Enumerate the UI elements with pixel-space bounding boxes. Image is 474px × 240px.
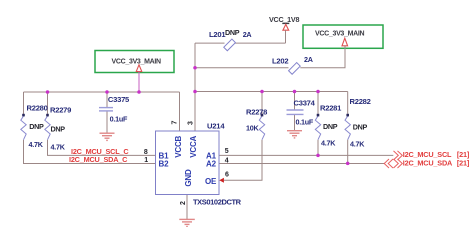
svg-text:DNP: DNP (353, 123, 368, 132)
svg-text:R2280: R2280 (27, 104, 48, 113)
svg-text:R2281: R2281 (320, 104, 342, 113)
svg-text:R2279: R2279 (50, 106, 71, 115)
node C3374/rail2 (293, 90, 297, 94)
svg-text:0.1uF: 0.1uF (110, 115, 128, 124)
svg-text:0.1uF: 0.1uF (296, 117, 314, 126)
wire L202 left (195, 67, 289, 69)
svg-text:B2: B2 (159, 160, 170, 169)
svg-text:6: 6 (225, 172, 229, 179)
svg-text:4: 4 (225, 158, 229, 165)
wire R2280 bottom to net I2C_MCU_SDA_C (24, 140, 156, 164)
off-page connector I2C_MCU_SDA (384, 158, 470, 168)
wire R2280 top (23, 92, 25, 116)
svg-text:TXS0102DCTR: TXS0102DCTR (193, 198, 242, 207)
wire A1 to off-page I2C_MCU_SCL (219, 154, 393, 156)
svg-text:A2: A2 (206, 160, 217, 169)
node L202/VCCA vertical (193, 66, 197, 70)
ground under C3374 (287, 131, 302, 138)
svg-text:U214: U214 (207, 121, 225, 130)
node R2278/rail2 (260, 90, 264, 94)
inductor L202 (272, 55, 313, 74)
wire R2281 bottom (317, 140, 319, 156)
svg-text:DNP: DNP (29, 122, 44, 131)
wire R2278 bottom to OE (224, 140, 262, 181)
node VCC stem/rail (137, 90, 141, 94)
resistor R2280 (21, 104, 48, 150)
svg-text:2: 2 (180, 201, 187, 205)
ground under U214 pin 2 (179, 219, 195, 226)
svg-text:2A: 2A (304, 55, 313, 64)
wire R2281 top (317, 92, 319, 117)
wire C3374 bottom (294, 114, 296, 130)
resistor R2281 (315, 104, 342, 148)
wire R2278 top (261, 92, 263, 117)
svg-text:OE: OE (205, 177, 217, 186)
wire L202 right to VCC_3V3_MAIN (300, 48, 345, 68)
svg-text:DNP: DNP (225, 28, 240, 37)
svg-text:7: 7 (171, 120, 178, 124)
resistor R2279 (45, 106, 71, 152)
node R2281/rail2 (316, 90, 320, 94)
svg-text:VCCA: VCCA (189, 135, 198, 157)
svg-text:GND: GND (184, 169, 193, 187)
svg-text:R2278: R2278 (246, 107, 267, 116)
node R2279/rail (46, 90, 50, 94)
wire GND pin 2 (186, 195, 188, 220)
svg-text:10K: 10K (246, 123, 259, 132)
wire C3374 top (294, 92, 296, 111)
svg-text:I2C_MCU_SDA: I2C_MCU_SDA (403, 158, 453, 167)
svg-text:L202: L202 (272, 57, 288, 66)
svg-text:1: 1 (144, 157, 148, 164)
resistor R2278 (246, 107, 267, 139)
node R2282/SDA (346, 162, 350, 166)
OE active-low arrow (219, 178, 224, 183)
svg-text:[21]: [21] (457, 158, 470, 167)
wire C3375 top (106, 92, 108, 108)
resistor R2282 (345, 97, 371, 148)
off-page connector I2C_MCU_SCL (394, 150, 470, 160)
svg-text:C3374: C3374 (294, 98, 316, 107)
svg-text:DNP: DNP (51, 125, 66, 134)
svg-text:4.7K: 4.7K (350, 139, 365, 148)
wire L201 right to VCC_1V8 (235, 42, 286, 44)
wire L201 left (195, 42, 225, 44)
power symbol VCC_3V3_MAIN (left box) (95, 51, 174, 93)
node rail2/VCCA vertical (193, 90, 197, 94)
svg-text:VCC_3V3_MAIN: VCC_3V3_MAIN (112, 58, 162, 65)
svg-text:VCCB: VCCB (174, 135, 183, 157)
wire VCC_3V3_MAIN rail left (24, 91, 180, 93)
wire R2282 top (347, 92, 349, 117)
wire pin7 drop (179, 92, 181, 131)
wire R2279 bottom to net I2C_MCU_SCL_C (48, 140, 156, 156)
svg-text:VCC_3V3_MAIN: VCC_3V3_MAIN (315, 30, 365, 37)
wire A2 to off-page I2C_MCU_SDA (219, 163, 384, 165)
wire C3375 bottom (106, 111, 108, 133)
svg-text:DNP: DNP (323, 122, 338, 131)
svg-text:VCC_1V8: VCC_1V8 (269, 15, 299, 24)
ground under C3375 (100, 133, 115, 140)
capacitor C3374 (287, 98, 316, 126)
node C3375/rail (105, 90, 109, 94)
svg-text:L201: L201 (209, 30, 226, 39)
svg-text:4.7K: 4.7K (321, 138, 336, 147)
wire VCCA rail right (195, 91, 348, 93)
wire R2282 bottom (347, 140, 349, 164)
svg-text:I2C_MCU_SDA_C: I2C_MCU_SDA_C (69, 155, 128, 164)
node R2281/SCL (316, 154, 320, 158)
wire VCCA vertical (194, 43, 196, 131)
IC U214 TXS0102DCTR level shifter (156, 121, 242, 206)
svg-text:8: 8 (144, 149, 148, 156)
power symbol VCC_1V8 (269, 15, 299, 43)
svg-text:3: 3 (187, 121, 194, 125)
svg-text:2A: 2A (243, 30, 252, 39)
svg-text:4.7K: 4.7K (29, 140, 44, 149)
wire R2279 top (47, 92, 49, 116)
svg-text:C3375: C3375 (108, 95, 130, 104)
svg-text:4.7K: 4.7K (51, 142, 66, 151)
svg-text:5: 5 (225, 148, 229, 155)
svg-text:R2282: R2282 (350, 97, 371, 106)
inductor L201 (209, 28, 251, 51)
capacitor C3375 (99, 95, 130, 124)
power symbol VCC_3V3_MAIN (right box) (303, 25, 383, 68)
